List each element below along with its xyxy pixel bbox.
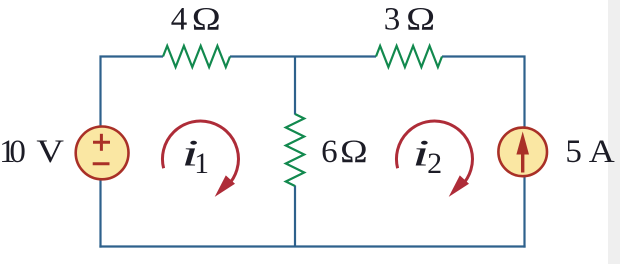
wire left-bottom segment [99,180,101,248]
mesh current i2 arrowhead [449,175,469,197]
voltage source plus sign [93,134,110,151]
wire middle bottom stub [294,186,296,247]
svg-text:A: A [589,134,615,170]
wire middle top stub [294,57,296,115]
svg-text:1: 1 [194,148,209,180]
svg-text:2: 2 [427,147,442,180]
voltage source V1 10V circle [76,126,129,179]
svg-text:Ω: Ω [406,2,435,38]
mesh current i1 arc [162,121,238,185]
svg-text:Ω: Ω [340,134,368,170]
current source arrow head [516,132,529,155]
resistor R 3ohm [376,46,442,67]
wire top-middle segment [230,55,376,57]
mesh current i2 arc [396,121,472,185]
svg-text:0: 0 [9,134,26,170]
current source I1 5A circle [498,128,547,177]
svg-text:Ω: Ω [192,2,221,38]
wire right-bottom segment [523,177,525,248]
mesh current i1 arrowhead [215,175,235,197]
svg-text:5: 5 [565,134,582,170]
resistor R 6ohm [286,114,304,186]
page edge strip [608,0,620,264]
voltage source minus sign [93,162,110,165]
svg-text:V: V [36,134,64,170]
current source arrow shaft [521,150,524,173]
wire top-left segment [101,57,164,126]
wire top-right segment [442,57,525,128]
svg-text:4: 4 [171,2,188,38]
wire bottom rail [99,245,525,247]
resistor R 4ohm [163,46,230,67]
svg-text:3: 3 [384,2,401,38]
svg-text:6: 6 [321,134,338,170]
